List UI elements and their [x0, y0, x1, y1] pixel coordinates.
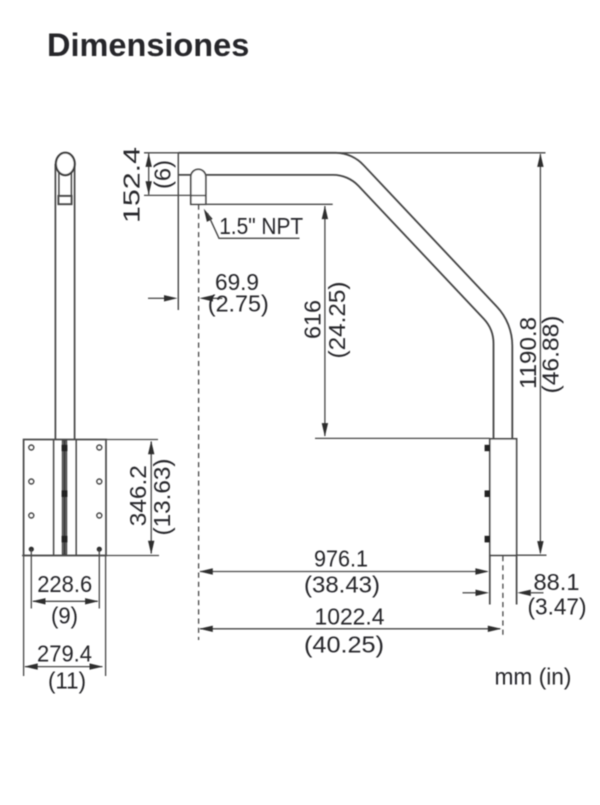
front view: fitting collar line: [191, 195, 206, 197]
dimension 228.6 arrows: [32, 598, 99, 604]
front view: arm tube lower contour: [178, 175, 493, 439]
svg-text:mm (in): mm (in): [495, 664, 572, 690]
side view: plate holes left column: [29, 445, 34, 518]
front view: NPT fitting: [191, 169, 206, 204]
dimension 976.1 arrows: [199, 568, 489, 574]
dimension 1022.4 (40.25): dimension line: [200, 628, 500, 630]
front view: bottom stub walls: [490, 555, 517, 604]
dimension 152.4 (6): bottom extension line: [144, 194, 191, 196]
dimension 346.2 (13.63): dimension line: [150, 442, 152, 554]
dimension 152.4 (6): dimension line: [148, 154, 150, 195]
side view: plate slot: [63, 441, 67, 555]
side view: slot screws: [62, 445, 68, 543]
svg-text:1.5" NPT: 1.5" NPT: [219, 213, 303, 239]
svg-text:(13.63): (13.63): [149, 459, 175, 536]
svg-text:279.4: 279.4: [37, 641, 92, 667]
stub centerline (dashed): [502, 556, 504, 638]
svg-text:976.1: 976.1: [314, 546, 368, 572]
dimension 279.4 (11): dimension line: [25, 666, 102, 668]
svg-text:(40.25): (40.25): [304, 632, 384, 658]
svg-text:616: 616: [300, 300, 326, 339]
dimension 346.2 arrows: [148, 441, 154, 554]
label 1.5" NPT leader arrow: [204, 209, 213, 222]
dimension 88.1 right arrow line: [531, 592, 544, 594]
svg-text:346.2: 346.2: [125, 465, 151, 526]
svg-text:(11): (11): [48, 668, 86, 694]
dimension 69.9 right arrow line: [213, 297, 222, 299]
dimension 1022.4 arrows: [199, 626, 501, 632]
svg-text:(6): (6): [150, 160, 176, 189]
side view: NPT fitting inner walls: [59, 168, 72, 196]
svg-text:(3.47): (3.47): [528, 594, 587, 620]
dimension 228.6 (9): extension lines from bottom holes: [31, 549, 99, 608]
svg-text:(2.75): (2.75): [208, 291, 269, 317]
dimension 346.2 (13.63): extension lines: [22, 440, 159, 556]
side view: fitting collar: [58, 196, 71, 204]
dimension 69.9 left arrowhead: [164, 295, 178, 301]
dimension 1190.8 arrows: [537, 153, 543, 554]
dimension 69.9 (2.75): left arrow line: [148, 297, 164, 299]
dimension 279.4 (11): extension lines from plate edges: [24, 556, 106, 676]
label 1.5" NPT leader line: [208, 213, 300, 238]
side view: plate slot rod: [63, 441, 65, 554]
dimension 88.1 left arrowhead: [476, 590, 490, 596]
svg-text:(38.43): (38.43): [304, 572, 380, 598]
svg-text:Dimensiones: Dimensiones: [47, 27, 249, 63]
dimension 152.4 (6): top extension line: [144, 152, 178, 154]
svg-text:152.4: 152.4: [119, 147, 145, 223]
side view: tube end cap circle: [56, 153, 75, 175]
svg-text:228.6: 228.6: [37, 571, 92, 597]
dimension 88.1 right arrowhead: [517, 590, 531, 596]
side view: plate channel lines: [54, 440, 77, 556]
dimension 69.9 right arrowhead: [199, 295, 213, 301]
dimension 616 (24.25): top extension line (fitting bottom): [191, 203, 333, 205]
dimension 152.4 arrows: [146, 153, 152, 194]
dimension 88.1 (3.47): left arrow line: [463, 592, 477, 594]
dimension 976.1 (38.43): dimension line: [200, 571, 487, 573]
svg-text:88.1: 88.1: [534, 569, 580, 595]
dimension 616 arrows: [322, 206, 328, 437]
side view: arm tube outer walls: [55, 164, 74, 440]
front view: tube left end cap: [177, 152, 179, 310]
dimension 279.4 arrows: [24, 663, 103, 669]
fitting centerline (dashed): [198, 205, 200, 641]
dimension 1190.8 (46.88): dimension line: [539, 154, 541, 553]
svg-text:(24.25): (24.25): [324, 282, 350, 359]
front view: mount block: [490, 439, 517, 556]
svg-text:(9): (9): [51, 603, 78, 629]
side view: plate holes right column: [97, 445, 102, 518]
front view: arm tube upper contour: [178, 153, 512, 439]
dimension 616 (24.25): dimension line: [324, 206, 326, 436]
top outline extension line to right: [336, 152, 546, 154]
svg-text:1022.4: 1022.4: [315, 604, 385, 630]
side view: plate bottom holes (filled): [29, 547, 102, 552]
dimension 1190.8 (46.88): bottom extension line: [490, 554, 547, 556]
dimension 228.6 (9): dimension line: [33, 600, 98, 602]
side view: wall plate: [24, 440, 106, 556]
mount block set screws: [485, 445, 491, 543]
dimension 616 (24.25): bottom extension line: [315, 437, 490, 439]
svg-text:(46.88): (46.88): [538, 316, 564, 394]
